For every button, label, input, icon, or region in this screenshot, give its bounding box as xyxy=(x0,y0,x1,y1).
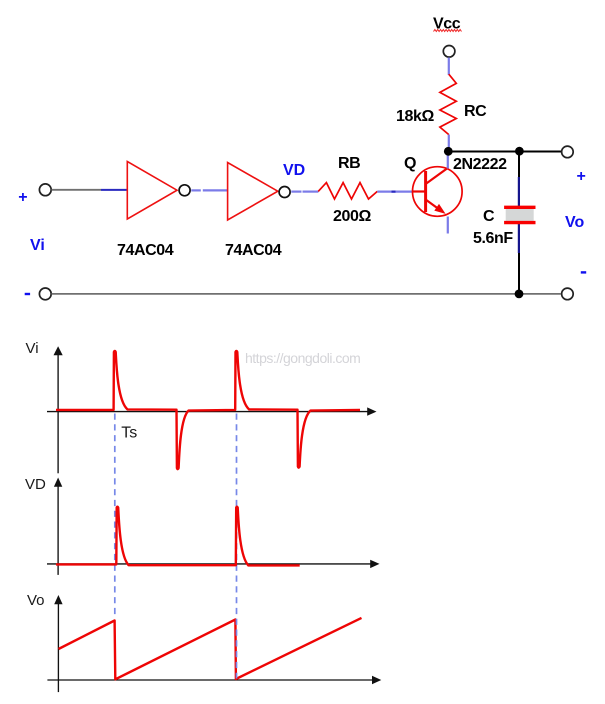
svg-text:74AC04: 74AC04 xyxy=(225,242,282,259)
label 2N2222 xyxy=(453,156,507,173)
label + (input) xyxy=(18,189,27,206)
svg-text:VD: VD xyxy=(25,476,46,493)
plot1 x-axis xyxy=(47,407,377,415)
label C xyxy=(483,208,495,225)
label Vi (input) xyxy=(30,237,45,254)
dashed guide line Ts1 xyxy=(114,414,116,616)
svg-text:2N2222: 2N2222 xyxy=(453,156,507,173)
label VD (plot2) xyxy=(25,476,46,493)
node B junction dot xyxy=(515,147,524,156)
label Vo (output) xyxy=(565,214,584,231)
label Q xyxy=(404,155,416,172)
svg-text:74AC04: 74AC04 xyxy=(117,242,174,259)
label RB xyxy=(338,155,360,172)
plot1 y-axis xyxy=(54,346,63,473)
transistor Q1 2N2222 body circle xyxy=(413,167,463,217)
svg-text:VD: VD xyxy=(283,162,305,179)
wire emitter stub xyxy=(447,217,449,234)
svg-text:Vi: Vi xyxy=(30,237,45,254)
terminal output - xyxy=(562,288,574,300)
inverter U2 74AC04 xyxy=(228,163,278,221)
label 200ohm xyxy=(333,208,371,225)
svg-text:5.6nF: 5.6nF xyxy=(473,230,513,247)
svg-text:Ts: Ts xyxy=(121,425,137,442)
plot2 x-axis xyxy=(47,560,380,568)
svg-text:+: + xyxy=(577,168,586,185)
inverter U2 output bubble xyxy=(279,187,290,198)
plot3 y-axis xyxy=(54,595,62,692)
wire capacitor navy lower xyxy=(518,224,520,253)
svg-text:+: + xyxy=(18,189,27,206)
wire collector stub xyxy=(447,153,449,169)
inverter U1 74AC04 xyxy=(127,162,177,220)
label 18kohm xyxy=(396,108,434,125)
wire RB to Q base xyxy=(377,191,412,193)
node A junction dot xyxy=(444,147,453,156)
capacitor C1 body xyxy=(504,207,535,222)
label 74AC04 (U2) xyxy=(225,242,282,259)
svg-text:RC: RC xyxy=(464,103,487,120)
svg-text:18kΩ: 18kΩ xyxy=(396,108,434,125)
wire top rail node A to out terminal xyxy=(448,151,561,153)
wire U1 to U2 xyxy=(191,189,227,191)
wire Vcc to RC xyxy=(448,58,450,76)
dashed guide line Ts2 xyxy=(236,414,238,571)
label Vi (plot1) xyxy=(26,340,39,357)
svg-text:200Ω: 200Ω xyxy=(333,208,371,225)
resistor RB xyxy=(318,183,377,199)
plot2 y-axis xyxy=(54,478,62,575)
label Vcc xyxy=(433,16,461,33)
label 74AC04 (U1) xyxy=(117,242,174,259)
inverter U1 output bubble xyxy=(179,185,190,196)
waveform Vo sawtooth trace xyxy=(59,618,362,679)
label Ts xyxy=(121,425,137,442)
wire RC to node A xyxy=(448,135,450,152)
transistor Q1 emitter lead with arrow xyxy=(426,200,446,214)
wire VD node xyxy=(291,191,318,193)
label VD node xyxy=(283,162,305,179)
wire bottom rail xyxy=(52,293,562,295)
label + (output) xyxy=(577,168,586,185)
label - (input) xyxy=(25,293,30,295)
wire node B down black lower xyxy=(518,253,520,294)
wire input gray xyxy=(52,189,102,191)
squiggle under Vcc xyxy=(434,30,462,32)
wire capacitor navy upper xyxy=(518,177,520,206)
dashed guide line Ts2 lower xyxy=(236,576,238,679)
resistor RC xyxy=(440,74,456,134)
label RC xyxy=(464,103,487,120)
svg-text:Vo: Vo xyxy=(27,592,45,609)
terminal input - xyxy=(39,288,51,300)
watermark xyxy=(245,350,360,366)
plot3 x-axis xyxy=(47,676,381,684)
waveform Vi trace xyxy=(56,351,360,469)
svg-text:C: C xyxy=(483,208,495,225)
svg-text:Vo: Vo xyxy=(565,214,584,231)
wire node B down black upper xyxy=(518,151,520,177)
terminal input + xyxy=(39,184,51,196)
waveform VD trace xyxy=(56,507,300,566)
label Vo (plot3) xyxy=(27,592,45,609)
svg-text:Q: Q xyxy=(404,155,416,172)
terminal output + xyxy=(562,146,574,158)
svg-text:RB: RB xyxy=(338,155,360,172)
wire input blue xyxy=(101,189,127,191)
node bottom junction dot xyxy=(515,290,524,299)
svg-text:Vi: Vi xyxy=(26,340,39,357)
transistor Q1 collector lead xyxy=(426,168,448,184)
label 5.6nF xyxy=(473,230,513,247)
transistor Q1 base bar xyxy=(424,171,427,212)
transistor Q1 base lead xyxy=(413,190,426,192)
label - (output) xyxy=(581,271,586,273)
svg-text:https://gongdoli.com: https://gongdoli.com xyxy=(245,350,360,366)
terminal Vcc xyxy=(443,46,455,58)
